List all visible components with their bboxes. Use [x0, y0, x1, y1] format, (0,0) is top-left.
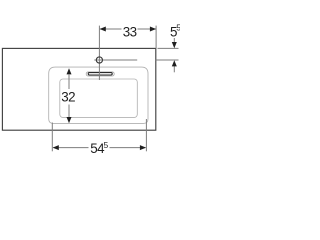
- dim 33 right arrowhead: [150, 27, 156, 32]
- dim 54.5 dimension line: [53, 147, 88, 149]
- dim 54.5 left extension line: [51, 123, 53, 152]
- dim 54.5 right extension line: [145, 119, 147, 151]
- dim 54.5 right arrowhead: [140, 145, 146, 150]
- dim 54.5 left arrowhead: [53, 145, 59, 150]
- svg-text:33: 33: [123, 24, 137, 39]
- tap hole circle: [96, 57, 102, 63]
- svg-text:32: 32: [61, 89, 75, 104]
- tap hole vertical centerline / extension line for dim 33: [98, 26, 100, 80]
- basin outer outline: [49, 67, 148, 123]
- dim 33 right extension line: [155, 26, 157, 49]
- tap hole horizontal centerline: [94, 59, 137, 61]
- countertop outline: [2, 48, 155, 130]
- basin inner outline: [60, 79, 138, 117]
- dim 5.5 down arrow: [173, 38, 175, 44]
- svg-text:5: 5: [176, 22, 180, 32]
- overflow outer lip: [86, 72, 114, 76]
- dim 32 dimension line: [68, 74, 70, 89]
- dim 5.5 top extension line: [158, 47, 179, 49]
- dim 32 up arrowhead: [67, 68, 72, 74]
- svg-text:5: 5: [104, 140, 109, 150]
- dim 32 down arrowhead: [67, 117, 72, 123]
- overflow slot: [88, 73, 112, 75]
- dim 33 left arrowhead: [100, 27, 106, 32]
- dim 5.5 bottom extension line: [156, 59, 179, 61]
- dim 33 dimension line: [100, 28, 122, 30]
- dim 5.5 up arrow: [173, 66, 175, 72]
